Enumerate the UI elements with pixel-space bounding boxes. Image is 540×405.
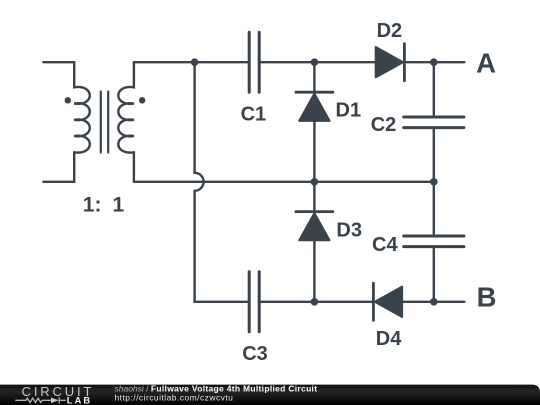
svg-text::: :	[95, 193, 102, 216]
svg-text:B: B	[477, 281, 497, 312]
svg-text:1: 1	[83, 193, 95, 216]
svg-text:A: A	[476, 47, 496, 78]
junction node B	[430, 298, 438, 306]
wire top net from secondary to C1	[134, 61, 248, 63]
transformer T1 core	[101, 92, 108, 153]
capacitor C2 plates	[404, 117, 464, 128]
footer bar	[0, 385, 540, 405]
diode D3 triangle	[299, 213, 329, 240]
junction node1 top	[191, 58, 199, 66]
diode D2 cathode bar	[403, 44, 406, 81]
logo resistor zigzag and diode	[15, 397, 66, 403]
diode D2 triangle	[376, 47, 403, 77]
junction middle D1-D3	[311, 178, 319, 186]
wire C4 to bottom net	[433, 248, 435, 302]
svg-text:1: 1	[112, 193, 124, 216]
wire D3 anode to bottom net	[313, 240, 315, 301]
transformer primary phasing dot	[65, 97, 71, 103]
wire from C3 to D4 cathode	[261, 301, 372, 303]
svg-text:C2: C2	[371, 114, 397, 136]
junction middle right	[430, 178, 438, 186]
junction bottom D3-D4	[311, 298, 319, 306]
svg-text:D2: D2	[377, 20, 403, 42]
svg-text:D4: D4	[376, 328, 402, 350]
svg-text:LAB: LAB	[67, 396, 92, 405]
wire D1 anode to D3 cathode through middle net	[313, 121, 315, 210]
wire top node to D1 cathode	[313, 62, 315, 91]
transformer secondary phasing dot	[139, 97, 145, 103]
wire from C1 to D2 anode	[261, 61, 376, 63]
wire C2 to middle net	[433, 129, 435, 234]
diode D4 triangle	[375, 287, 402, 317]
diode D1 triangle	[299, 94, 329, 121]
logo diode triangle	[51, 398, 59, 404]
diode D1 cathode bar	[296, 91, 333, 94]
diode D4 cathode bar	[372, 283, 375, 320]
svg-text:http://circuitlab.com/czwcvtu: http://circuitlab.com/czwcvtu	[115, 393, 234, 403]
svg-text:C3: C3	[242, 343, 268, 365]
wire node1 vertical with hop over middle net, down to C3	[195, 62, 248, 302]
svg-text:C1: C1	[241, 103, 267, 125]
diode D3 cathode bar	[296, 210, 333, 213]
wire primary top lead	[43, 61, 74, 63]
wire node A down to C2	[433, 62, 435, 115]
wire from D2 cathode to terminal A	[406, 61, 464, 63]
wire secondary bottom lead	[133, 152, 135, 182]
junction D1 top	[311, 58, 319, 66]
capacitor C3 plates	[249, 272, 259, 332]
wire from D4 anode to terminal B	[402, 301, 464, 303]
capacitor C4 plates	[404, 236, 464, 247]
capacitor C1 plates	[249, 32, 259, 92]
wire middle net from secondary to right column	[134, 181, 434, 183]
svg-text:C4: C4	[372, 234, 398, 256]
transformer T1 secondary winding	[118, 62, 134, 152]
svg-text:D3: D3	[336, 219, 362, 241]
transformer T1 primary winding	[74, 62, 90, 152]
junction node A	[430, 58, 438, 66]
wire primary bottom lead	[43, 152, 74, 182]
svg-text:D1: D1	[336, 99, 362, 121]
